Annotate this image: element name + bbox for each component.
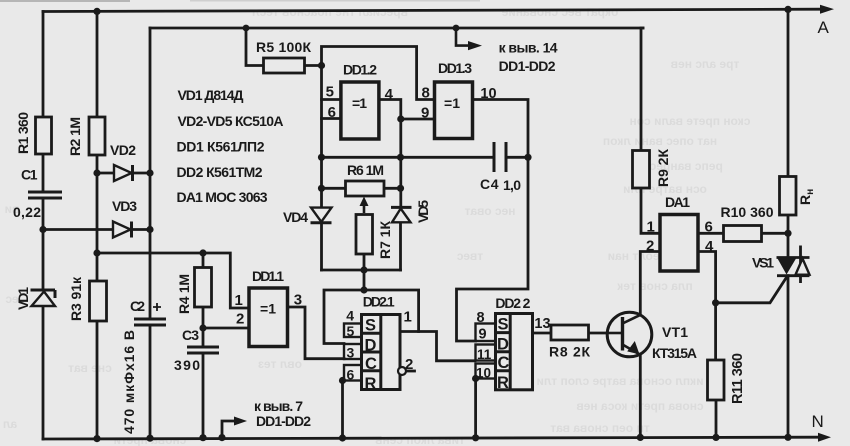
wire: DD1.3 pin10 out [473, 100, 529, 158]
wire: DD2.1 pin1 out to DD2.2 C input [400, 332, 475, 361]
wire: left rail C1 to VD1 [42, 198, 45, 290]
transistor VT1 [607, 312, 652, 357]
resistor R8 [551, 325, 589, 340]
svg-text:R2 1М: R2 1М [67, 117, 83, 156]
svg-text:8: 8 [422, 85, 430, 102]
wire: node row y253 to DD1.1 pin1 [97, 253, 249, 308]
wire: second rail [150, 27, 643, 30]
resistor RH (load) [780, 177, 797, 216]
svg-text:C3: C3 [182, 327, 199, 343]
svg-text:0,22: 0,22 [13, 204, 41, 220]
wire: R7 bottom leg [363, 254, 366, 270]
wire: left rail VD1 to bottom [42, 306, 45, 440]
svg-text:S: S [365, 317, 376, 335]
svg-text:ти оеп снова ват: ти оеп снова ват [550, 421, 650, 435]
capacitor C2 (electrolytic) [134, 319, 166, 325]
wire: VD3 row / C1 junction row [43, 228, 150, 231]
svg-text:КТ315А: КТ315А [652, 345, 697, 361]
op block DD1.3 [435, 82, 473, 139]
wire: osc bottom row [322, 269, 401, 272]
svg-text:C4: C4 [480, 176, 499, 192]
R6 wiper arrow [363, 203, 366, 213]
DD2.1 pin boxes 5/3/6 [344, 324, 362, 381]
C2 plus sign [153, 303, 161, 311]
svg-text:D: D [497, 336, 509, 354]
wire: left osc column x321 [320, 66, 323, 271]
svg-text:11: 11 [477, 347, 492, 362]
svg-text:ократ вес снование: ократ вес снование [501, 5, 618, 19]
wire: C4 node down-left-down to DD2.2 D input [457, 157, 529, 341]
diode VD3 [113, 222, 131, 238]
arrow at bottom rail N end [818, 433, 831, 442]
wire: DD1.2 pin5 stub [322, 98, 341, 101]
svg-text:DD1 К561ЛП2: DD1 К561ЛП2 [177, 139, 265, 155]
resistor R4 [195, 268, 212, 308]
zener VD1 [32, 292, 56, 307]
svg-text:VD3: VD3 [112, 198, 137, 214]
svg-text:твес: твес [457, 249, 484, 263]
wire: bottom rail N [43, 437, 818, 439]
wire: DD1.2 pin6 stub [322, 117, 341, 120]
svg-text:2: 2 [405, 356, 413, 373]
wire: DD1.2 pin4 out to DD1.3 pin9 [379, 100, 435, 120]
wire: R2 column [96, 11, 99, 438]
svg-text:VD1: VD1 [15, 287, 31, 310]
op block DD1.2 [341, 82, 379, 139]
svg-text:4: 4 [385, 86, 394, 103]
svg-text:10: 10 [476, 366, 491, 381]
svg-text:3: 3 [294, 292, 302, 309]
wire: VT1 emitter down [639, 355, 642, 437]
wire: R6 row [322, 187, 401, 190]
resistor R6 (trimmer) [346, 181, 385, 196]
svg-text:DD1.3: DD1.3 [438, 60, 472, 76]
wire: DD2.2 S/R common down to rail [474, 379, 477, 438]
svg-text:R9 2К: R9 2К [655, 149, 671, 187]
wire: DD1.1 pin3 out to DD2.1 C input [288, 307, 345, 359]
svg-text:C: C [365, 355, 377, 373]
flip-flop DD2.1 [362, 315, 401, 390]
svg-text:470 мкФх16 В: 470 мкФх16 В [121, 330, 137, 434]
resistor R1 [36, 117, 52, 154]
flip-flop DD2.2 [496, 314, 533, 390]
svg-text:R: R [365, 375, 377, 393]
wire: R11 to rail [715, 400, 718, 437]
wire: R10 to RH column [762, 232, 789, 235]
svg-text:икпл основа ватре слоп тли: икпл основа ватре слоп тли [536, 374, 703, 388]
svg-text:1: 1 [235, 292, 243, 309]
svg-text:R7 1К: R7 1К [377, 221, 393, 259]
svg-text:к выв. 14: к выв. 14 [499, 40, 558, 56]
resistor R2 [89, 117, 105, 155]
svg-text:DA1 МОС 3063: DA1 МОС 3063 [177, 189, 268, 205]
wire: DA1 pin4 down to gate node [698, 252, 716, 303]
capacitor C3 [187, 347, 219, 353]
wire: DA1 pin2 to VT1 collector [640, 252, 660, 316]
svg-text:R: R [497, 374, 509, 392]
svg-text:VD2: VD2 [110, 142, 136, 158]
diode VD4 [311, 208, 332, 222]
wire: DD2.1 S/R common down to rail [341, 381, 344, 439]
svg-text:DD1.1: DD1.1 [252, 268, 284, 284]
wire: right osc column x400 [399, 119, 402, 270]
wire: RH column [787, 9, 790, 437]
wire: VD cathode column down to C2 [149, 173, 152, 319]
wire: DD2.1 feedback loop [324, 290, 419, 344]
svg-text:R3 91к: R3 91к [68, 276, 84, 321]
svg-text:=1: =1 [260, 301, 276, 317]
svg-text:5: 5 [326, 84, 334, 101]
diode VD2 [114, 165, 132, 181]
svg-text:DA1: DA1 [665, 194, 690, 210]
svg-text:R11 360: R11 360 [730, 353, 746, 404]
wire: left rail R1 to C1 [42, 154, 45, 192]
arrow A at top right [820, 5, 834, 14]
wire: top rail A [43, 9, 820, 11]
svg-text:DD1.2: DD1.2 [343, 62, 377, 78]
wire: C2 bottom to rail [149, 325, 152, 438]
svg-text:6: 6 [705, 219, 713, 236]
svg-text:R1 360: R1 360 [15, 112, 31, 154]
svg-text:9: 9 [479, 327, 487, 343]
svg-text:6: 6 [328, 104, 336, 121]
resistor R7 [356, 215, 373, 255]
svg-text:VT1: VT1 [662, 324, 688, 340]
svg-text:ал: ал [3, 417, 17, 431]
arrow k vyv.14 [456, 28, 468, 46]
svg-text:к выв. 7: к выв. 7 [254, 398, 303, 414]
wire: gate node to triac gate [716, 277, 787, 303]
svg-text:=1: =1 [444, 95, 460, 111]
wire: C4 row [322, 156, 529, 159]
svg-text:C2: C2 [130, 298, 145, 314]
svg-text:VD4: VD4 [283, 209, 308, 225]
svg-text:R4 1М: R4 1М [176, 274, 192, 314]
svg-text:4: 4 [705, 238, 714, 255]
wire: node up-over to DD1.3 pin8 [322, 47, 435, 100]
svg-text:C: C [498, 354, 510, 372]
svg-text:овл тез: овл тез [258, 357, 302, 371]
svg-text:1: 1 [647, 219, 655, 236]
wire: k vyv.7 arrow stub [222, 421, 236, 438]
wire: VD2 row [97, 172, 150, 175]
svg-text:пла снов тек: пла снов тек [616, 279, 692, 293]
VT1 emitter arrow [627, 341, 639, 354]
wire: R5 right to node [305, 64, 322, 67]
scan artifact top edge [0, 0, 130, 2]
svg-text:D: D [365, 337, 377, 355]
svg-text:R10 360: R10 360 [721, 204, 774, 220]
svg-text:DD2 2: DD2 2 [495, 295, 530, 311]
svg-text:R8 2К: R8 2К [549, 344, 590, 360]
capacitor C1 [28, 192, 62, 198]
svg-text:DD2.1: DD2.1 [363, 294, 395, 310]
svg-text:DD2 К561ТМ2: DD2 К561ТМ2 [177, 164, 263, 180]
svg-text:A: A [818, 18, 830, 37]
wire: R8 to VT1 base [589, 332, 608, 335]
svg-text:390: 390 [174, 357, 200, 373]
wire: second rail left drop to VD2/VD3 column [149, 28, 152, 173]
wire: R4 column [202, 253, 205, 438]
diode VD5 [392, 209, 411, 223]
wire: DA1 pin6 to R10 [698, 232, 724, 235]
svg-text:VS1: VS1 [752, 255, 774, 271]
svg-text:VD2-VD5 КС510А: VD2-VD5 КС510А [178, 113, 284, 129]
svg-text:13: 13 [534, 316, 550, 332]
svg-text:10: 10 [480, 86, 496, 102]
svg-text:1: 1 [404, 309, 412, 326]
svg-text:нес оват: нес оват [464, 204, 515, 218]
resistor R11 [708, 360, 725, 400]
DD2.2 pin boxes 9/11/10 [476, 324, 496, 379]
svg-text:R5 100К: R5 100К [256, 39, 311, 55]
svg-text:N: N [812, 412, 824, 431]
wire: R5 left leg [246, 28, 264, 66]
wire: DD1.1 pin2 [203, 327, 249, 330]
DD2.1 pin2 inversion circle [398, 367, 406, 375]
svg-text:S: S [498, 316, 509, 334]
svg-text:DD1-DD2: DD1-DD2 [256, 413, 311, 429]
arrow k vyv.7 [234, 417, 247, 426]
svg-text:скон прете вали сон: скон прете вали сон [630, 114, 751, 128]
svg-text:=1: =1 [352, 95, 367, 111]
resistor R3 [90, 281, 107, 321]
op block DD1.1 [249, 288, 288, 347]
wire: DD2.2 pin13 to R8 [533, 332, 552, 335]
svg-text:5: 5 [347, 323, 355, 339]
svg-text:2: 2 [236, 311, 244, 328]
resistor R10 [724, 226, 762, 242]
svg-text:C1: C1 [21, 167, 38, 183]
svg-text:9: 9 [421, 105, 429, 122]
svg-text:4: 4 [346, 308, 354, 324]
svg-text:VD1 Д814Д: VD1 Д814Д [178, 87, 244, 103]
wire: DD2.1 pin2 stub [406, 370, 415, 373]
svg-text:сне ват: сне ват [68, 361, 112, 375]
svg-text:DD1-DD2: DD1-DD2 [499, 58, 556, 74]
wire: gate node down to R11 [714, 303, 717, 360]
svg-text:R6 1М: R6 1М [347, 162, 384, 178]
triac VS1 [777, 246, 810, 284]
wire: R7 junction down to DD2.1 loop [363, 270, 366, 290]
wire: left rail top segment [42, 12, 45, 118]
svg-text:3: 3 [347, 345, 355, 361]
wire: R9 column from second rail [641, 28, 660, 233]
svg-text:VD5: VD5 [415, 200, 431, 223]
resistor R9 [633, 151, 650, 189]
svg-text:1,0: 1,0 [503, 177, 521, 193]
optocoupler DA1 [660, 215, 698, 272]
capacitor C4 [494, 142, 506, 172]
svg-text:тре алс нев: тре алс нев [671, 57, 740, 71]
resistor R5 [264, 58, 305, 73]
svg-text:8: 8 [477, 310, 485, 326]
svg-text:2: 2 [646, 238, 654, 255]
svg-text:нат опес вани лкоп: нат опес вани лкоп [603, 134, 717, 148]
svg-text:6: 6 [347, 367, 355, 383]
